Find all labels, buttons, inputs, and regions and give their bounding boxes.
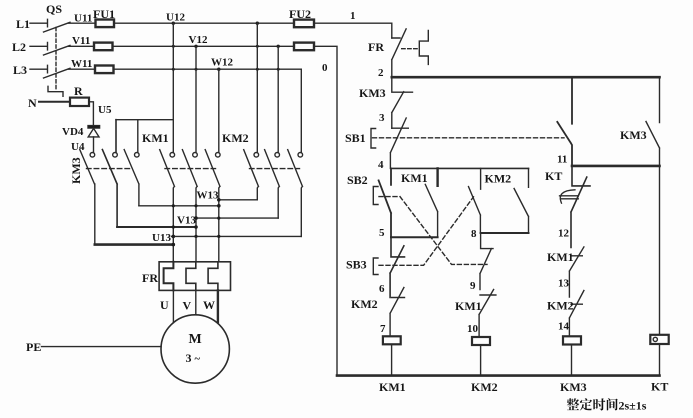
coil KT (650, 335, 668, 376)
SB3 linkage dashed with diagonal (379, 197, 474, 265)
fuse FU1c (95, 66, 114, 74)
svg-text:U4: U4 (71, 141, 85, 153)
wire W11-W12 rail (69, 68, 302, 70)
wire FR to motor V (195, 290, 197, 314)
node 4 bus (392, 167, 529, 169)
contact KM3 NO (self hold) (392, 77, 413, 128)
svg-text:3: 3 (379, 112, 385, 124)
contact KM1 NC interlock (right) (479, 290, 496, 338)
wire V13 (196, 217, 278, 219)
svg-text:W11: W11 (71, 58, 92, 70)
wire right rail to KT coil (659, 166, 661, 335)
fuse FU1a (96, 20, 115, 28)
KM2 linkage dashed (250, 168, 300, 170)
timer contact KT delayed (571, 166, 590, 248)
svg-text:L2: L2 (12, 40, 26, 54)
coil KM3 (563, 336, 581, 375)
svg-text:V13: V13 (177, 215, 196, 227)
contactor KM3 pole 3 (124, 120, 139, 206)
wire W13 (219, 199, 257, 201)
svg-text:FR: FR (368, 40, 384, 54)
svg-text:U: U (160, 298, 169, 312)
svg-text:11: 11 (557, 154, 567, 166)
wire 1 drop (391, 23, 393, 38)
svg-text:KM2: KM2 (485, 172, 512, 186)
svg-text:U12: U12 (166, 12, 185, 24)
svg-text:KM1: KM1 (379, 380, 406, 394)
contactor KM2 pole 2 (265, 46, 280, 218)
SB2 linkage dashed with diagonal (379, 197, 487, 265)
contact SB1 linked NO (branch 572) (557, 77, 572, 166)
wire U13 (172, 235, 302, 237)
note setting time (567, 398, 618, 410)
button SB1 NC (390, 118, 408, 168)
svg-text:5: 5 (379, 227, 385, 239)
svg-text:U13: U13 (152, 232, 171, 244)
svg-text:KM1: KM1 (547, 250, 574, 264)
diode VD4 (88, 125, 100, 136)
fuse FU2b (294, 43, 314, 51)
svg-text:L3: L3 (13, 63, 27, 77)
svg-text:KT: KT (651, 380, 668, 394)
svg-text:SB3: SB3 (346, 258, 367, 272)
svg-text:12: 12 (558, 228, 570, 240)
svg-text:SB1: SB1 (345, 131, 366, 145)
button SB3 NO (KM2 branch) (469, 168, 481, 233)
svg-text:7: 7 (380, 323, 386, 335)
svg-text:2: 2 (378, 67, 384, 79)
svg-text:VD4: VD4 (62, 126, 84, 138)
thermal contact FR NC (392, 29, 406, 77)
disconnect switch QS pole 1 (30, 19, 70, 32)
wire N (39, 101, 70, 103)
wire FR to motor U (172, 290, 174, 322)
QS handle (48, 86, 63, 96)
thermal relay FR box (159, 262, 230, 291)
svg-text:0: 0 (322, 62, 328, 74)
svg-text:QS: QS (46, 2, 62, 16)
contact KM1 NC (KT chain) (569, 247, 584, 297)
junction dots on rails (172, 22, 280, 71)
SB1 linkage dashed long (373, 137, 565, 139)
svg-text:1: 1 (350, 10, 356, 22)
contact KM2 aux NO (514, 168, 528, 233)
svg-text:N: N (28, 96, 37, 110)
FR heater element 3 (208, 262, 218, 291)
button SB2 NO (379, 168, 391, 237)
KM3 linkage dashed (87, 168, 131, 170)
wire 0 feed (314, 46, 337, 375)
svg-text:L1: L1 (16, 17, 30, 31)
contactor KM3 pole 1 (80, 150, 95, 245)
contact KM3 NO (right) (646, 77, 660, 166)
node 11 bus (572, 165, 660, 168)
contact KM1 aux NO (425, 168, 437, 237)
svg-text:KM3: KM3 (69, 157, 83, 184)
svg-text:W12: W12 (211, 57, 234, 69)
svg-text:10: 10 (467, 323, 479, 335)
FR heater element 1 (164, 262, 174, 291)
svg-text:13: 13 (558, 278, 570, 290)
svg-text:KM1: KM1 (455, 299, 482, 313)
KM3 pole3 to W13 wire (139, 205, 219, 207)
KM1 linkage dashed (165, 168, 216, 170)
wire diode to KM3 (93, 137, 95, 152)
FR trip paddle (419, 30, 428, 64)
svg-text:M: M (189, 332, 202, 347)
contactor KM2 pole 3 (288, 69, 303, 236)
contactor KM2 pole 1 (244, 23, 259, 200)
svg-text:KM2: KM2 (547, 299, 574, 313)
contactor KM1 pole 3 (205, 69, 220, 262)
SB2 bracket (373, 187, 378, 205)
wire 0 bottom rail (337, 374, 660, 377)
svg-text:KM3: KM3 (620, 128, 647, 142)
KT delay arc (560, 190, 579, 203)
svg-text:KM2: KM2 (471, 380, 498, 394)
wire V11-V12 rail (69, 45, 295, 47)
svg-text:W: W (203, 298, 215, 312)
KM3 pole2 to V13 wire (117, 226, 196, 228)
KM3 top link wire (116, 119, 173, 121)
svg-text:V12: V12 (189, 34, 208, 46)
KM3 pole1 to U13 wire (95, 243, 174, 246)
coil KM1 (383, 336, 401, 375)
svg-text:KM1: KM1 (142, 131, 169, 145)
button SB3 NC (390, 237, 404, 297)
disconnect switch QS pole 3 (30, 65, 70, 78)
contactor KM1 pole 1 (160, 23, 175, 262)
contactor KM1 pole 2 (182, 46, 197, 261)
svg-text:R: R (74, 84, 83, 98)
svg-text:V: V (183, 299, 192, 313)
wire PE (42, 346, 162, 348)
wire 1 top (314, 22, 392, 24)
svg-text:FR: FR (142, 271, 158, 285)
svg-text:6: 6 (379, 283, 385, 295)
svg-text:W13: W13 (197, 190, 220, 202)
svg-text:2s±1s: 2s±1s (619, 399, 647, 413)
svg-text:KM2: KM2 (351, 297, 378, 311)
fuse FU2a (294, 20, 314, 28)
coil KM2 (472, 337, 490, 376)
node 2 bus (392, 76, 660, 79)
svg-text:KT: KT (545, 169, 562, 183)
svg-text:9: 9 (470, 280, 476, 292)
SB1 bracket (371, 129, 376, 149)
node 8 bus (481, 232, 529, 234)
contact KM2 NC interlock (left) (390, 288, 404, 337)
contact KM2 NC (KT chain) (569, 291, 584, 337)
motor M circle (161, 315, 229, 383)
FR paddle dashed link (402, 48, 419, 50)
node 5 bus (391, 236, 438, 238)
svg-text:PE: PE (26, 340, 41, 354)
svg-text:U5: U5 (98, 104, 112, 116)
contactor KM3 pole 2 (102, 120, 117, 227)
wire FR to motor W (217, 290, 219, 322)
svg-text:SB2: SB2 (347, 173, 368, 187)
QS linkage dashed (55, 28, 57, 90)
svg-text:KM3: KM3 (560, 380, 587, 394)
svg-text:KM3: KM3 (359, 86, 386, 100)
svg-text:KM1: KM1 (401, 171, 428, 185)
FR heater element 2 (186, 262, 196, 291)
svg-text:KM2: KM2 (222, 131, 249, 145)
wire resistor to diode (89, 102, 93, 125)
svg-text:V11: V11 (72, 35, 90, 47)
wire U11-U12 rail (69, 22, 295, 24)
svg-text:4: 4 (378, 159, 384, 171)
svg-text:14: 14 (558, 321, 570, 333)
svg-text:8: 8 (471, 228, 477, 240)
junction dots lower (172, 198, 221, 246)
svg-text:U11: U11 (74, 13, 92, 25)
svg-text:3 ~: 3 ~ (186, 351, 201, 365)
fuse FU1b (94, 43, 113, 51)
resistor R (70, 98, 89, 106)
button SB2 NC (KM2 branch) (480, 233, 493, 290)
disconnect switch QS pole 2 (30, 42, 70, 55)
SB3 bracket (373, 258, 378, 275)
